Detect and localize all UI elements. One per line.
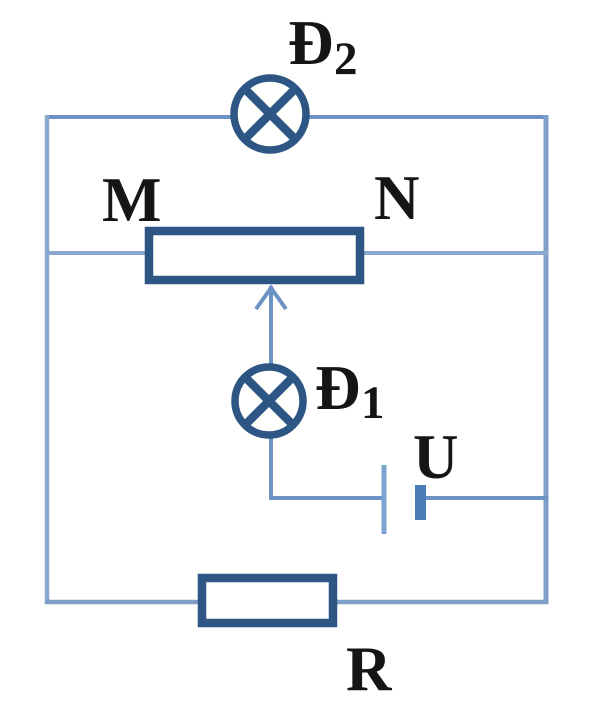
- rheostat MN body: [149, 231, 360, 280]
- resistor R body: [202, 578, 333, 623]
- svg-text:Đ: Đ: [315, 353, 361, 423]
- wire horizontal from lamp D1 leg to battery left plate: [269, 496, 382, 500]
- wiper arrowhead: [256, 288, 286, 309]
- battery long plate: [382, 465, 387, 534]
- wire rheostat level left segment: [45, 251, 149, 255]
- svg-text:2: 2: [334, 33, 358, 85]
- svg-text:N: N: [374, 163, 420, 233]
- battery short thick plate: [415, 485, 426, 520]
- svg-text:1: 1: [361, 377, 385, 429]
- wire top horizontal (left rail top to lamp D2 to right rail top): [46, 115, 546, 119]
- wire left rail vertical: [45, 115, 50, 604]
- wire lamp D1 bottom down to battery level: [269, 434, 273, 500]
- lamp D2 (circle with X): [234, 78, 306, 150]
- wire wiper vertical down to lamp D1: [269, 286, 273, 368]
- svg-text:U: U: [413, 422, 459, 492]
- lamp D1 (circle with X): [235, 367, 303, 435]
- wire rheostat level right segment: [360, 251, 548, 255]
- svg-text:M: M: [102, 165, 161, 235]
- wire bottom horizontal: [45, 600, 548, 605]
- wire right rail vertical: [544, 115, 549, 604]
- wire from battery right plate to right rail: [424, 496, 548, 500]
- svg-text:Đ: Đ: [288, 8, 334, 78]
- svg-text:R: R: [346, 634, 393, 704]
